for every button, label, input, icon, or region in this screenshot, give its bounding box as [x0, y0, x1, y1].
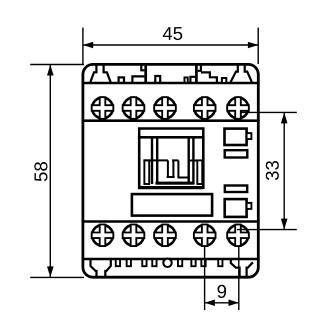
bottom-right inverted mesa with tab	[231, 259, 253, 276]
bottom strip tooth 1	[116, 259, 120, 266]
lower clamp small rect	[225, 186, 247, 193]
frame inner wall right a	[187, 138, 189, 184]
screw terminal bottom 1	[92, 225, 114, 247]
bottom strip top line	[82, 258, 260, 261]
frame small rect left	[144, 160, 149, 184]
upper clamp tab	[247, 133, 252, 139]
screw terminal top 1	[92, 97, 114, 119]
dim 9 extension line right	[238, 247, 240, 311]
frame inner bottom band	[156, 182, 195, 185]
dim 45 extension line right	[257, 28, 259, 65]
top strip square 1	[119, 77, 124, 82]
dim 45 line	[83, 44, 258, 46]
center outer frame	[139, 137, 203, 187]
bottom strip tooth 5	[178, 259, 182, 266]
dim 33 arrowhead bottom	[281, 219, 288, 230]
separator below top terminals	[82, 119, 260, 122]
frame inner wall right b	[192, 138, 194, 184]
bottom strip tooth 7	[201, 259, 205, 266]
bottom strip tooth 8	[218, 259, 222, 266]
bottom-left inverted mesa with tab	[91, 259, 111, 276]
bottom strip tooth 4	[152, 259, 156, 266]
bottom strip tooth 6	[191, 259, 195, 266]
dim 9 arrowhead right	[229, 300, 239, 307]
frame inner wall left b	[156, 138, 158, 184]
dim 33 extension line top	[240, 111, 297, 113]
top strip square 2	[155, 76, 160, 83]
dim 58 arrowhead bottom	[47, 266, 54, 277]
bottom strip circle	[163, 259, 171, 267]
frame inner wall left a	[151, 138, 153, 184]
screw terminal top 3	[154, 97, 176, 119]
screw terminal bottom 5	[227, 225, 249, 247]
lower clamp main	[225, 199, 247, 217]
top strip square 4	[222, 78, 226, 83]
contactor body outline	[83, 64, 258, 277]
separator above bottom terminals	[82, 220, 260, 223]
dim 58 arrowhead top	[47, 65, 54, 76]
nameplate rectangle	[132, 194, 212, 216]
center top bar	[139, 129, 203, 138]
top strip right ledge notch and stepped ledges	[190, 64, 217, 82]
dim 33 arrowhead top	[281, 112, 288, 123]
dim 58 extension line top	[30, 64, 84, 66]
screw terminal bottom 3	[154, 225, 176, 247]
dim 45 extension line left	[82, 28, 84, 65]
screw terminal bottom 4	[194, 225, 216, 247]
screw terminal top 5	[227, 97, 249, 119]
dim 45 arrowhead right	[248, 42, 258, 49]
label 58	[34, 162, 47, 181]
screw terminal top 4	[194, 97, 216, 119]
screw terminal bottom 2	[123, 225, 145, 247]
lower clamp tab	[247, 203, 252, 209]
bottom strip tooth 2	[127, 259, 131, 266]
upper clamp small rect	[225, 150, 248, 157]
dim 9 line	[205, 302, 239, 304]
screw terminal top 2	[123, 97, 145, 119]
dim 9 arrowhead left	[205, 300, 215, 307]
top strip right bar	[195, 64, 198, 82]
top strip left bar	[144, 64, 147, 82]
frame small rect right	[197, 160, 202, 184]
top strip bottom line	[82, 82, 260, 84]
bottom strip tooth 3	[142, 259, 146, 266]
frame inner contact detail	[143, 160, 197, 177]
top strip square 3	[184, 77, 187, 82]
dim 58 line	[49, 65, 51, 278]
upper clamp main	[225, 129, 247, 145]
label 9	[218, 285, 227, 298]
dim 45 arrowhead left	[83, 42, 93, 49]
center outer frame bottom emphasis	[138, 186, 203, 189]
label 45	[163, 27, 182, 40]
label 33	[266, 161, 279, 180]
dim 33 line	[283, 112, 285, 229]
top strip left ledge and notch	[132, 64, 144, 82]
top-left mesa with tab	[90, 64, 110, 82]
top-right mesa with tab	[231, 64, 252, 82]
dim 9 extension line left	[204, 247, 206, 311]
dim 58 extension line bottom	[30, 276, 84, 278]
dim 33 extension line bottom	[237, 229, 297, 231]
